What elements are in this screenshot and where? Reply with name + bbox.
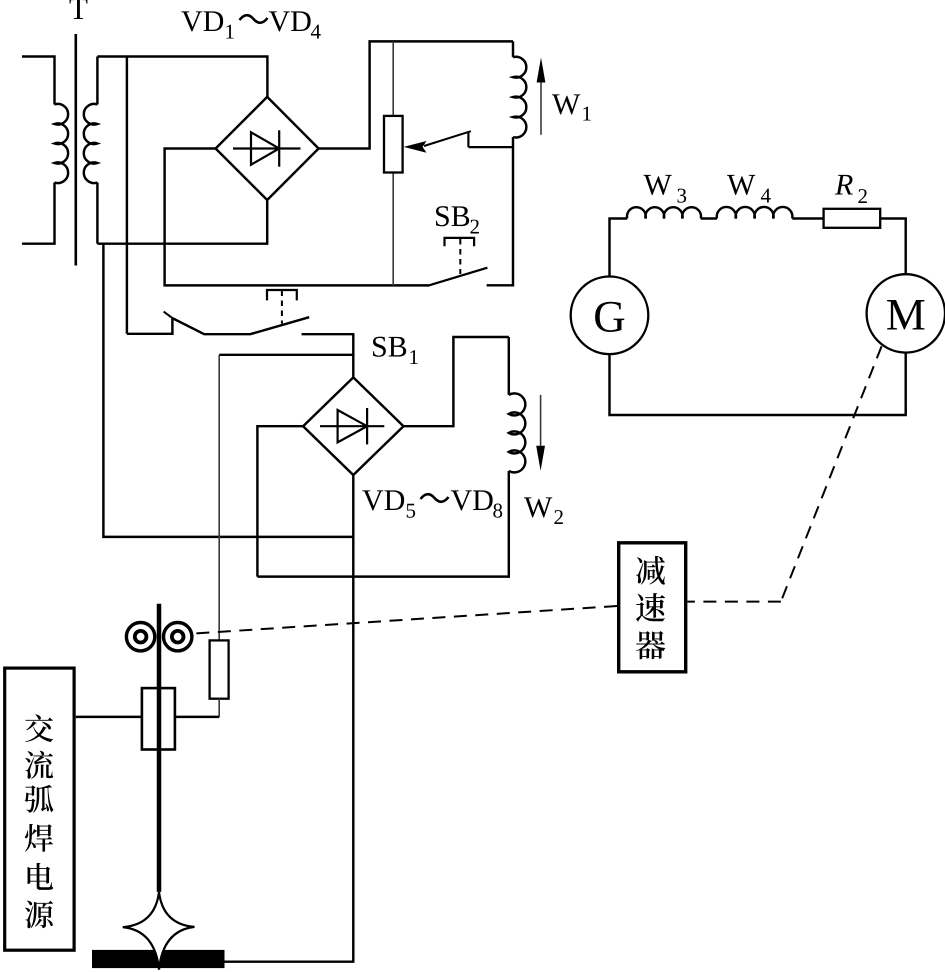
SB1 blade segments [172, 317, 309, 334]
winding W3 [627, 207, 701, 218]
lower bridge bottom corner long wire to workpiece [352, 475, 354, 962]
label R2 [835, 175, 853, 195]
winding W4 [717, 207, 793, 219]
wire wiper to W1 line [468, 146, 513, 148]
transformer primary bottom lead wire [22, 183, 55, 244]
wire W2 bottom loop [257, 471, 508, 577]
motor M circle [867, 274, 945, 352]
SB2 switch blade [428, 268, 488, 286]
welding electrode wire [157, 604, 162, 892]
arrow beside W2 [540, 395, 542, 448]
wire lower bridge right corner to W2 top [404, 337, 509, 426]
workpiece [92, 950, 225, 968]
SB1 cap [267, 290, 297, 300]
label W4 [727, 175, 755, 195]
electrode holder [142, 688, 175, 749]
transformer core [75, 34, 78, 266]
SB1 left contact [127, 318, 172, 334]
label W3 [644, 175, 672, 195]
AC source text jiao [25, 714, 53, 742]
label VD1~VD4 [181, 11, 202, 31]
reducer text su [636, 593, 665, 622]
wire feed roller left [126, 623, 154, 651]
wire W4 to R2 [792, 217, 823, 219]
reducer text jian [636, 556, 665, 585]
diode symbol inside VD5~VD8 [320, 425, 384, 427]
wire secondary bottom horizontal [97, 242, 267, 244]
wire tee to feed resistor (corner) [219, 354, 354, 356]
winding W1 [512, 41, 514, 57]
label W2 [524, 497, 552, 517]
bridge rectifier VD1~VD4 diamond [216, 97, 319, 200]
rheostat feed wire (thin) [392, 41, 394, 285]
thin wire below feed resistor [218, 699, 220, 717]
wire AC source to holder [76, 716, 142, 718]
transformer primary top lead wire [22, 57, 55, 105]
AC arc welding source box [5, 668, 74, 950]
G-M loop top wire left [610, 219, 628, 277]
winding W2 [508, 337, 510, 395]
AC source text yuan [25, 901, 53, 929]
transformer T label [70, 0, 88, 19]
label VD5~VD8 [362, 490, 383, 510]
wire workpiece to bridge loop [225, 960, 355, 962]
transformer secondary bottom lead wire [96, 183, 98, 244]
wire feed roller right [164, 623, 192, 651]
wire R2 to M [880, 219, 906, 275]
label SB2 [436, 206, 449, 226]
bridge rectifier VD5~VD8 diamond [303, 377, 403, 475]
wire lower bridge left corner loop [257, 426, 303, 576]
wire from top bus down to SB1 left contact [126, 57, 128, 334]
transformer secondary winding [84, 104, 98, 183]
label W1 [552, 94, 580, 114]
feed resistor body [210, 640, 229, 698]
AC source text hu [25, 785, 54, 813]
SB1 right contact wire [302, 333, 355, 335]
rheostat wiper arrow [424, 131, 471, 146]
label SB1 [373, 337, 386, 357]
AC source text liu [25, 751, 53, 779]
arrow beside W1 [540, 78, 542, 135]
resistor R2 [824, 209, 881, 228]
G-M loop bottom wire [610, 353, 906, 415]
wire bridge VD1-VD4 bottom corner down [266, 200, 268, 245]
reducer text qi [636, 631, 665, 659]
welding arc star [123, 892, 195, 970]
thin wire down to feed resistor [218, 355, 220, 641]
AC source text han [25, 824, 53, 852]
pushbutton SB2 cap [445, 238, 475, 246]
reducer box (jiansuqi) [619, 543, 686, 672]
generator G circle [571, 277, 649, 355]
wire holder to feed resistor [175, 716, 219, 718]
wiper contact tick [467, 133, 469, 148]
wire W1 bottom down to SB2 right contact [487, 137, 513, 285]
diode symbol inside VD1~VD4 [233, 147, 301, 149]
rheostat resistor body [384, 116, 403, 173]
SB2 stem (dashed) [459, 239, 461, 274]
wire secondary top to bridge VD1-VD4 [97, 57, 267, 97]
wire bridge right corner to rheostat branch [319, 41, 513, 148]
AC source text dian [28, 863, 54, 890]
wire long left vertical to welding loop [103, 243, 354, 537]
dashed link M to reducer [781, 346, 882, 601]
transformer primary winding [55, 104, 69, 183]
wire bridge left corner to SB2 feed [165, 149, 429, 286]
wire W3 to W4 [701, 217, 717, 219]
wire SB1 bus to lower bridge top [352, 334, 354, 378]
dashed link reducer to feed rollers [193, 606, 617, 634]
SB1 stem (dashed) [281, 291, 283, 324]
transformer secondary top lead wire [96, 57, 98, 105]
